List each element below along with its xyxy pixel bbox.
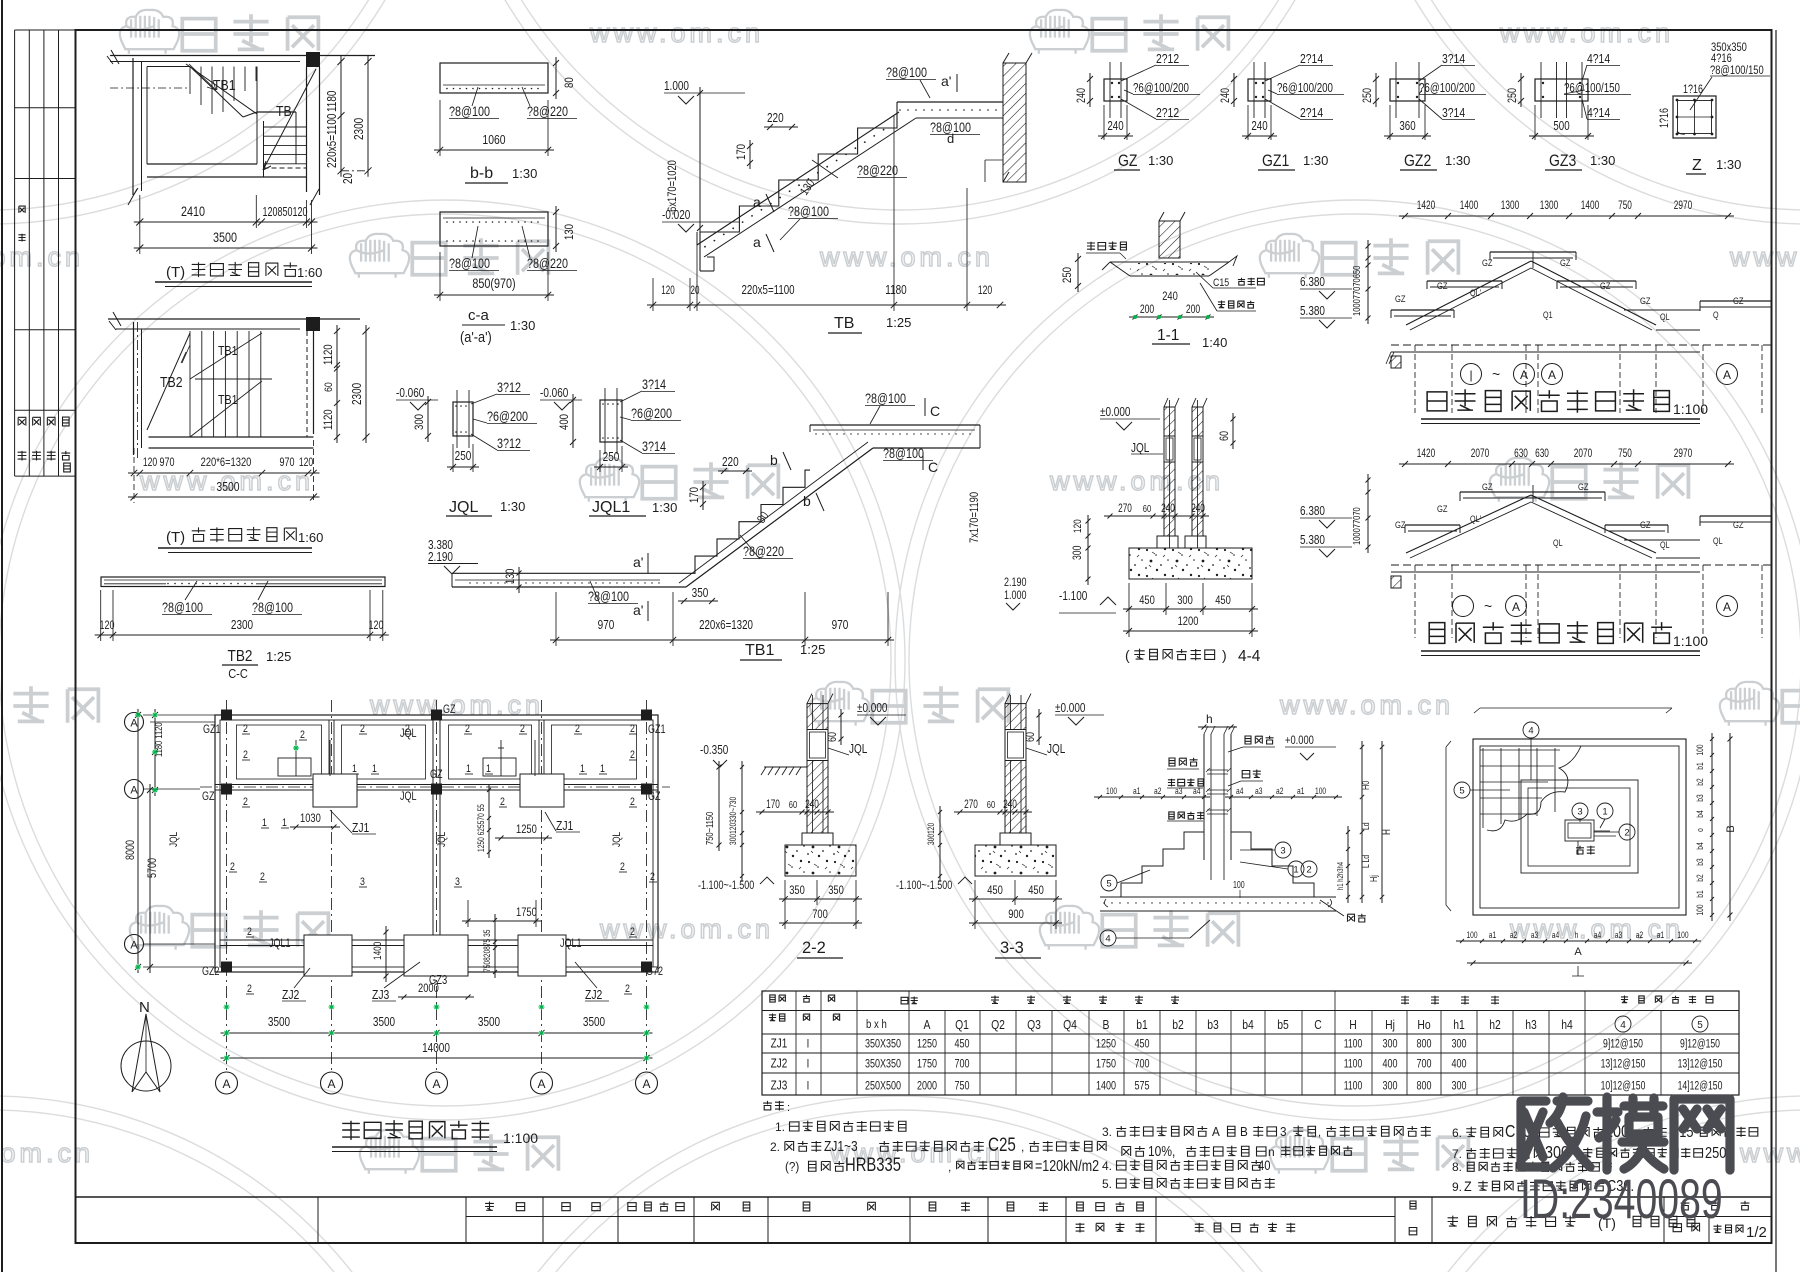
svg-text:4?14: 4?14 [1587,52,1611,66]
svg-text:800: 800 [1416,1037,1431,1051]
svg-text:2: 2 [300,729,305,741]
stair plan 1 walls [132,58,134,195]
spiral detail rects [1473,739,1686,915]
svg-text:A: A [222,1077,230,1091]
svg-text:3500: 3500 [213,230,237,245]
foundation plan rebar stubs [295,740,297,776]
svg-text:d: d [947,131,954,146]
svg-text:ID:2340089: ID:2340089 [1520,1168,1723,1231]
gable 1 base lines [1391,344,1772,346]
svg-text:1750: 1750 [516,906,537,919]
svg-text:1.000: 1.000 [664,80,689,93]
svg-text:100: 100 [1106,786,1117,796]
svg-text:2: 2 [360,723,365,735]
svg-text:630: 630 [1514,448,1528,461]
svg-text:700: 700 [812,908,828,921]
beam TB2 leaders [185,581,197,600]
svg-text:2970: 2970 [1674,200,1693,213]
svg-text:b-b: b-b [470,165,493,182]
svg-text:2: 2 [247,983,252,995]
svg-text:970: 970 [159,456,174,470]
svg-text:300: 300 [1451,1079,1466,1093]
foundation plan mid wall [215,784,658,786]
svg-text:A: A [1723,368,1731,382]
svg-text:Hj: Hj [1368,875,1379,882]
svg-text:1:30: 1:30 [1590,153,1615,168]
svg-text:-0.060: -0.060 [540,387,568,400]
svg-text:3: 3 [1280,1124,1287,1139]
svg-text:3?14: 3?14 [642,377,666,392]
section c-a dim 850(970) [434,294,554,296]
svg-text:1060: 1060 [482,133,506,147]
svg-text:170: 170 [766,799,780,812]
svg-text:120: 120 [299,457,314,469]
svg-text:2: 2 [243,749,248,761]
svg-text:100077070650: 100077070650 [1351,266,1362,316]
svg-text:?6@100/200: ?6@100/200 [1133,82,1189,96]
svg-text:5: 5 [1459,786,1464,797]
sheet outer edge [1,0,3,1272]
gable 2 profile [1460,491,1605,493]
svg-text:80: 80 [755,510,772,526]
svg-text:b1: b1 [1695,890,1705,898]
svg-text:JQL: JQL [1047,743,1065,756]
svg-text:2000: 2000 [917,1079,937,1093]
svg-text:60: 60 [827,732,839,742]
svg-text:-1.100~-1.500: -1.100~-1.500 [896,879,952,893]
svg-text:2410: 2410 [181,204,205,219]
svg-text:JQL: JQL [449,499,478,516]
svg-text:a2: a2 [1510,930,1518,940]
foundation plan bottom beam JQL1 [220,939,653,941]
svg-text:240: 240 [1003,799,1017,812]
svg-text:1:40: 1:40 [1202,335,1227,350]
svg-text:TB1: TB1 [218,343,238,358]
svg-text:a3: a3 [1615,930,1623,940]
svg-text:GZ: GZ [1395,519,1406,530]
svg-text:270: 270 [1118,503,1132,516]
TB section sloped slab [697,112,899,245]
svg-text:a3: a3 [1531,930,1539,940]
svg-text:(a'-a'): (a'-a') [460,328,492,345]
svg-text:970: 970 [279,456,294,470]
svg-text:-1.100: -1.100 [1059,590,1087,603]
svg-text:2.: 2. [770,1140,780,1154]
svg-text:240: 240 [1107,120,1123,133]
svg-text:GZ: GZ [1560,257,1571,268]
TB1 bottom dims [550,639,894,641]
svg-text:2: 2 [243,723,248,735]
svg-text:3: 3 [1280,846,1285,857]
svg-text:QL: QL [1713,536,1723,546]
svg-text:3.: 3. [1102,1125,1112,1139]
foundation plan bottom dims [221,1032,653,1034]
svg-text:?8@100: ?8@100 [865,391,906,406]
gable 1 top dims [1399,215,1734,217]
svg-text:240: 240 [1076,88,1088,103]
svg-text:20: 20 [342,173,355,184]
svg-text:2: 2 [630,723,635,735]
svg-text:13]12@150: 13]12@150 [1678,1058,1723,1071]
svg-text:h1: h1 [1453,1018,1465,1032]
svg-text:1:30: 1:30 [1148,153,1173,168]
svg-text:1?16: 1?16 [1659,108,1671,128]
svg-text:2: 2 [520,723,525,735]
svg-text:700: 700 [954,1057,969,1071]
svg-text:ZJ1~3: ZJ1~3 [824,1138,858,1155]
svg-text:b4: b4 [1695,842,1705,850]
svg-text:5.: 5. [1102,1177,1112,1191]
svg-text:b4: b4 [1695,810,1705,818]
svg-text:GZ: GZ [1640,519,1651,530]
svg-text:2: 2 [620,861,625,873]
svg-text:170: 170 [688,487,701,503]
svg-text:7x170=1190: 7x170=1190 [968,492,981,543]
svg-text:2: 2 [500,796,505,808]
svg-text:-1.100~-1.500: -1.100~-1.500 [698,879,754,893]
TB1 steps [673,470,810,573]
svg-text:A: A [432,1077,440,1091]
svg-text:Z: Z [1464,1178,1472,1194]
svg-text:Z: Z [1692,157,1702,174]
svg-text:1400: 1400 [1581,200,1600,213]
svg-text:a2: a2 [1276,786,1284,796]
svg-text:C: C [928,459,938,475]
svg-text:1:30: 1:30 [1716,157,1741,172]
svg-text:1100: 1100 [1344,1038,1363,1051]
section 2-2 footing [785,845,856,876]
svg-text:GZ: GZ [1600,280,1611,291]
svg-text:700: 700 [1416,1057,1431,1071]
svg-text:500: 500 [1553,120,1569,133]
stair plan 2 column black [306,317,320,331]
svg-text:+0.000: +0.000 [1285,734,1314,747]
svg-text:300: 300 [1072,545,1084,560]
step detail wall [1203,734,1205,860]
svg-text::: : [787,1102,790,1114]
step detail stirrup marks [1207,770,1228,774]
JQL dim 250 [447,466,479,468]
svg-text:6.380: 6.380 [1300,276,1325,289]
svg-text:2-2: 2-2 [802,939,826,957]
north arrow [121,1041,171,1091]
svg-text:300: 300 [1177,594,1193,607]
svg-text:450: 450 [1139,594,1155,607]
svg-text:60: 60 [1025,732,1037,742]
foundation plan Z pads mid [313,774,357,807]
svg-text:1:30: 1:30 [1445,153,1470,168]
svg-text:(?): (?) [785,1159,799,1174]
svg-text:a': a' [633,602,643,618]
svg-text:www.om.cn: www.om.cn [1279,690,1454,720]
svg-text:Ho: Ho [1417,1018,1431,1032]
svg-text:350X350: 350X350 [865,1037,901,1051]
svg-text:GZ: GZ [1437,503,1448,514]
spiral detail top bracket [1474,708,1672,713]
svg-text:a3: a3 [1175,786,1183,796]
svg-text:80: 80 [563,77,576,88]
svg-text:~: ~ [1492,366,1500,382]
gable 2 right section [1700,515,1772,517]
svg-text:450: 450 [954,1037,969,1051]
svg-text:2?14: 2?14 [1300,106,1324,120]
svg-text:2.190: 2.190 [1004,576,1027,590]
beam TB2 dims [95,634,389,636]
svg-text:3500: 3500 [373,1016,395,1029]
foundation plan left dims [154,709,156,796]
svg-text:?6@100/150: ?6@100/150 [1564,82,1620,96]
svg-text:1030: 1030 [300,812,321,825]
stair plan 2 right dims [336,325,338,443]
svg-text:300: 300 [1451,1037,1466,1051]
svg-text:130: 130 [505,568,517,584]
svg-text:1:25: 1:25 [886,315,911,330]
svg-text:350X350: 350X350 [865,1057,901,1071]
foundation plan bottom pads [304,935,352,976]
svg-text:1200: 1200 [1178,615,1199,628]
svg-text:1420: 1420 [1417,448,1436,461]
column section GZ2 wdim [1384,135,1431,137]
svg-text:a4: a4 [1552,930,1560,940]
svg-text:1750: 1750 [917,1057,937,1071]
svg-text:h: h [1575,930,1579,940]
data table group headers [901,996,918,1003]
stair plan 1 column black [306,52,320,67]
svg-text:,: , [1318,1127,1321,1139]
svg-text:1: 1 [466,763,471,775]
svg-text:250X500: 250X500 [865,1079,901,1093]
svg-text:www.om.cn: www.om.cn [1499,18,1674,48]
svg-text:6.380: 6.380 [1300,505,1325,518]
section 3-3 step [1000,833,1031,845]
svg-text:G72: G72 [646,965,663,979]
foundation plan title [342,1120,489,1140]
svg-text:4: 4 [1620,1020,1626,1031]
svg-text:I: I [807,1058,810,1071]
svg-text:TB: TB [834,315,854,332]
spiral detail circles [1523,722,1539,738]
svg-text:10]12@150: 10]12@150 [1601,1080,1646,1093]
svg-text:300: 300 [1382,1037,1397,1051]
svg-text:8000: 8000 [125,840,137,860]
svg-text:N: N [139,999,150,1016]
gable 1 right section [1700,300,1772,302]
spiral detail break wave [1487,746,1581,831]
foundation plan top band inner rects [237,725,322,779]
title bar tuming cell [1431,1197,1433,1243]
svg-text:GZ: GZ [443,703,456,717]
gable 1 columns dashed [1414,345,1416,413]
svg-text:100: 100 [1695,904,1705,915]
data table header row1 left [770,995,786,1002]
svg-text:,: , [948,1160,951,1174]
svg-text:1:30: 1:30 [500,499,525,514]
svg-text:9.: 9. [1452,1180,1462,1194]
svg-text:±0.000: ±0.000 [1055,702,1085,715]
svg-text:1: 1 [600,763,605,775]
svg-text:a3: a3 [1255,786,1263,796]
svg-text:I: I [807,1038,810,1051]
svg-text:b3: b3 [1695,794,1705,802]
svg-text:GZ: GZ [1118,152,1137,170]
svg-text:3?14: 3?14 [1442,52,1466,66]
svg-text:www.om.cn: www.om.cn [0,242,84,272]
svg-text:2: 2 [243,796,248,808]
svg-text:1400: 1400 [1460,200,1479,213]
svg-text:JQL1: JQL1 [592,499,630,516]
stair plan 1 arrow TB [263,69,316,170]
svg-text:240: 240 [1162,290,1178,303]
title bar cells [542,1197,544,1243]
svg-text:450: 450 [1215,594,1231,607]
svg-text:270: 270 [964,799,978,812]
svg-text:a: a [753,194,761,210]
JQL1 dim 250 [594,466,628,468]
svg-text:1:100: 1:100 [1673,633,1708,649]
svg-text:240: 240 [1220,88,1232,103]
gable 2 base lines [1391,564,1772,566]
svg-text:4?14: 4?14 [1587,106,1611,120]
svg-text:L Ld: L Ld [1361,855,1371,868]
svg-text:Q: Q [1713,310,1719,320]
TB section bottom dims [647,304,1006,306]
foundation plan outer walls [215,715,658,972]
svg-text:-0.020: -0.020 [662,209,690,222]
svg-text:QL: QL [1660,540,1670,550]
step detail base [1100,896,1336,898]
svg-text:3: 3 [360,876,365,888]
gable 2 axis circles [1453,596,1474,617]
svg-text:1:30: 1:30 [652,500,677,515]
svg-text:60: 60 [789,799,797,810]
section c-a leaders [472,226,478,258]
svg-text:GZ1: GZ1 [648,723,666,737]
svg-text:b5: b5 [1277,1018,1289,1032]
step detail circles [1101,875,1117,891]
section 4-4 wall rebar lines [1169,400,1171,548]
svg-text:250: 250 [455,450,472,463]
section 3-3 footing [975,845,1056,876]
section 2-2 step [802,833,833,845]
svg-text:5700: 5700 [147,858,159,878]
TB section top slab [897,101,1003,103]
svg-text:?8@100: ?8@100 [162,600,203,615]
stair plan 1 lower treads [264,126,307,128]
svg-text:750~1150: 750~1150 [704,812,715,845]
section c-a dim 130 [555,206,557,252]
svg-text:GZ1: GZ1 [1262,152,1289,170]
svg-text:4: 4 [1105,934,1110,945]
svg-text:3500: 3500 [583,1016,605,1029]
svg-text:5: 5 [1106,879,1111,890]
JQL1 column box [600,400,622,442]
svg-text:800: 800 [1416,1079,1431,1093]
svg-text:b1: b1 [1136,1018,1148,1032]
svg-text:60: 60 [1219,431,1231,441]
svg-text:?8@100: ?8@100 [886,65,927,80]
svg-text:1250: 1250 [1096,1037,1116,1051]
svg-text:?8@100: ?8@100 [449,104,490,119]
svg-text:350: 350 [789,884,805,897]
svg-text:JQL: JQL [849,743,867,756]
svg-text:2: 2 [247,926,252,938]
svg-text:120: 120 [1072,519,1084,533]
column section GZ2 box [1390,79,1425,101]
svg-text:60: 60 [987,799,995,810]
svg-text:1: 1 [486,763,491,775]
svg-text:Q2: Q2 [991,1018,1005,1032]
svg-text:A: A [1212,1124,1221,1139]
watermark logos [120,10,319,54]
stair plan 1 upper flight treads [190,67,256,115]
svg-text:2300: 2300 [231,619,253,632]
svg-text:a1: a1 [1657,930,1665,940]
spiral detail left bracket [1446,741,1451,911]
svg-text:120: 120 [661,285,675,298]
svg-text:ZJ3: ZJ3 [771,1080,788,1093]
stair plan 1 bottom dim row1 [134,221,318,223]
svg-text:A: A [1574,946,1582,958]
svg-text:a1: a1 [1297,786,1305,796]
svg-text:Q3: Q3 [1027,1018,1041,1032]
svg-text:1250 625570 55: 1250 625570 55 [476,804,486,852]
stair plan 2 walls [133,322,135,455]
svg-text:400: 400 [1382,1057,1397,1071]
svg-text:200: 200 [1140,304,1155,316]
section 4-4 footing [1129,548,1252,579]
stair plan 1 right dims [340,56,342,177]
svg-text:~: ~ [1484,598,1492,614]
svg-text:1180: 1180 [326,91,339,112]
svg-text:970: 970 [832,619,849,632]
svg-text:2?14: 2?14 [1300,52,1324,66]
svg-text:ZJ3: ZJ3 [372,988,390,1002]
svg-text:-0.350: -0.350 [700,744,728,757]
svg-text:?6@100/200: ?6@100/200 [1419,82,1475,96]
svg-text:1120: 1120 [322,409,335,430]
svg-text:450: 450 [1028,884,1044,897]
svg-text:1: 1 [1293,865,1298,876]
svg-text:GZ: GZ [202,790,215,804]
svg-text:3500: 3500 [478,1016,500,1029]
svg-text:A: A [642,1077,650,1091]
svg-text:5.380: 5.380 [1300,534,1325,547]
svg-text:220x6=1320: 220x6=1320 [699,619,753,632]
svg-text:750: 750 [954,1079,969,1093]
svg-text:350: 350 [828,884,844,897]
svg-text:www.om.cn: www.om.cn [0,1138,94,1168]
column section GZ wdim [1098,135,1133,137]
svg-text:1-1: 1-1 [1157,327,1179,344]
svg-text:a1: a1 [1489,930,1497,940]
stair plan 2 top beam [108,318,360,320]
svg-text:200: 200 [1186,304,1201,316]
svg-text:4.: 4. [1102,1159,1112,1173]
svg-text:575: 575 [1134,1079,1149,1093]
svg-text:JQL: JQL [611,831,623,847]
svg-text:1:30: 1:30 [1303,153,1328,168]
svg-text:A: A [1723,600,1731,614]
svg-text:a': a' [633,554,643,570]
svg-text:2: 2 [625,983,630,995]
gable 1 roof slopes [1406,261,1531,325]
svg-text:1: 1 [372,763,377,775]
svg-text:B: B [1240,1124,1248,1139]
svg-text:750: 750 [1618,200,1632,213]
svg-text:ZJ1: ZJ1 [352,821,369,835]
svg-text:1:60: 1:60 [297,265,322,280]
svg-text:www.om.cn: www.om.cn [1739,1138,1800,1168]
